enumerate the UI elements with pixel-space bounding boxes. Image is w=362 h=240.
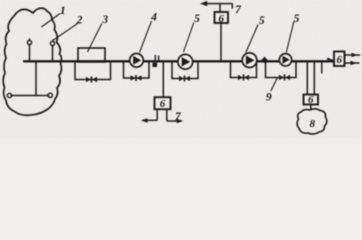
twin drop pipes to discharge — [306, 62, 308, 95]
hydrant right branch — [167, 120, 180, 122]
leader label 5 pump P2 — [184, 23, 194, 53]
svg-text:2: 2 — [76, 15, 83, 27]
reservoir outline 1 (water source pond) — [3, 8, 61, 115]
outlet top line — [345, 54, 361, 56]
discharge pond blob (label 8) — [297, 109, 327, 134]
svg-text:6: 6 — [308, 94, 314, 106]
leader label 9 — [271, 78, 278, 92]
svg-text:5: 5 — [294, 13, 300, 25]
leader label 3 — [88, 24, 102, 53]
well circle W1 — [27, 40, 31, 44]
outlet top arrowhead — [352, 53, 358, 57]
meter box 6 top — [215, 12, 229, 23]
union ticks after pump P1 — [155, 55, 158, 62]
svg-text:6: 6 — [218, 13, 224, 25]
intake circle right — [48, 93, 52, 97]
wire box 6 top to main pipe — [220, 23, 222, 62]
bypass loop B — [124, 62, 150, 79]
valve on bypass B — [131, 75, 142, 81]
bypass loop E — [266, 62, 297, 78]
valve on bypass E — [279, 75, 290, 81]
wire well W2 to main pipe — [52, 46, 54, 62]
svg-text:3: 3 — [101, 14, 108, 26]
leader label 5 pump P3 — [246, 25, 258, 53]
well W2 stem — [52, 40, 54, 42]
stub to discharge pond — [310, 105, 312, 111]
meter box 6 bottom — [155, 97, 171, 109]
leader label 2 — [54, 24, 78, 41]
hydrant left arrowhead — [141, 118, 148, 123]
bypass loop A — [75, 62, 111, 80]
leader label 1 — [42, 14, 61, 28]
well circle W2 — [50, 41, 54, 45]
apparatus box 3 — [78, 48, 105, 62]
valve on bypass D — [238, 75, 249, 81]
wire drop to hydrant assembly — [162, 62, 164, 98]
wire below bottom box — [156, 109, 158, 120]
svg-text:8: 8 — [310, 118, 316, 130]
pump P2 (label 5) — [178, 54, 193, 69]
leader label 5 pump P4 — [286, 22, 294, 53]
smear blob under pipe — [153, 63, 158, 67]
sprinkler tee top (label 7) — [202, 4, 232, 12]
hydrant right leg — [166, 109, 168, 121]
svg-text:6: 6 — [160, 98, 166, 110]
second drop pipe — [313, 62, 315, 95]
svg-text:1: 1 — [60, 5, 66, 17]
wire drop to intake collector — [35, 62, 37, 96]
main pipeline — [24, 60, 334, 62]
svg-text:9: 9 — [266, 91, 272, 103]
intake collector pipe — [11, 95, 49, 97]
wire well W1 to main pipe — [29, 45, 31, 62]
meter box 6 bottom right — [304, 95, 319, 105]
svg-text:6: 6 — [336, 54, 342, 66]
valve on bypass C — [179, 76, 190, 82]
valve on bypass A — [86, 77, 97, 83]
well W1 stem — [29, 39, 31, 41]
pump P4 (label 5) — [279, 54, 291, 66]
outlet bottom arrowhead — [351, 61, 357, 65]
scan grain overlay — [0, 0, 362, 138]
bypass loop C — [172, 62, 198, 79]
pump P3 (label 5) — [242, 53, 257, 68]
svg-text:5: 5 — [194, 13, 200, 25]
leader label 4 — [140, 21, 152, 53]
intake circle left — [7, 93, 11, 97]
outlet box 6 right — [334, 52, 345, 67]
svg-text:5: 5 — [259, 15, 265, 27]
hydrant right arrowhead — [177, 119, 183, 124]
outlet bottom line — [345, 62, 360, 64]
bypass loop D — [231, 62, 257, 78]
short stub pipe — [321, 62, 323, 74]
tee left arrowhead — [200, 1, 207, 6]
hydrant left branch — [145, 119, 158, 121]
check valve before box 6 right — [327, 58, 333, 63]
check valve after pump P3 — [261, 57, 267, 64]
pump P1 (label 4) — [130, 54, 144, 68]
svg-text:4: 4 — [150, 12, 157, 24]
